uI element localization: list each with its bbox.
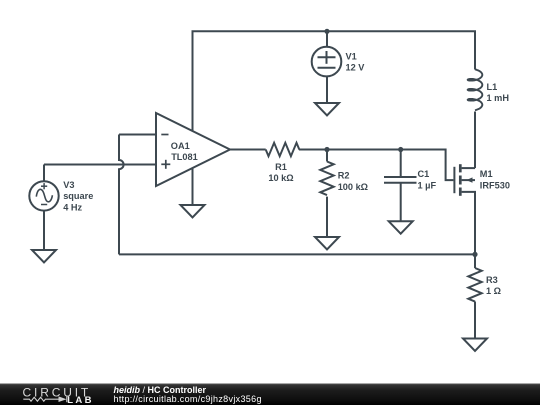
wire C1 to ground	[400, 183, 402, 222]
svg-text:100 kΩ: 100 kΩ	[338, 182, 368, 192]
wire V1 stem top	[326, 31, 328, 47]
label M1	[480, 169, 510, 191]
label L1	[487, 82, 510, 103]
svg-text:M1: M1	[480, 169, 493, 179]
node C1 junction	[398, 147, 403, 152]
ground under V1	[315, 103, 339, 115]
label V1	[346, 52, 366, 73]
svg-text:R3: R3	[486, 275, 498, 285]
wire R1 to node	[299, 149, 401, 151]
wire bottom rail	[119, 253, 475, 255]
svg-text:1 µF: 1 µF	[418, 181, 437, 191]
footer bar	[0, 384, 540, 405]
label V3	[63, 180, 93, 213]
wire V1 to ground	[326, 76, 328, 103]
op-amp plus pin mark	[161, 160, 170, 169]
wire op-amp output	[230, 149, 266, 151]
label OA1	[171, 141, 198, 162]
node junction top rail / V1	[324, 29, 329, 34]
label R2	[338, 171, 368, 192]
wire V3 top	[43, 165, 45, 182]
voltage source V1	[312, 47, 342, 77]
svg-text:http://circuitlab.com/c9jhz8vj: http://circuitlab.com/c9jhz8vjx356g	[114, 394, 262, 404]
wire R3 to ground	[474, 302, 476, 339]
svg-text:L1: L1	[487, 82, 498, 92]
svg-text:C1: C1	[418, 169, 430, 179]
ground under R3	[463, 339, 487, 351]
wire op-amp minus input	[119, 134, 156, 136]
capacitor C1	[384, 177, 417, 183]
logo resistor-diode doodle	[23, 396, 67, 402]
wire R2 to ground	[326, 197, 328, 237]
ground under R2	[315, 237, 339, 249]
inductor L1	[468, 69, 483, 110]
svg-text:LAB: LAB	[67, 395, 94, 405]
wire V3 to ground	[43, 211, 45, 250]
resistor R1	[266, 143, 300, 156]
label R1	[268, 162, 293, 183]
ground under C1	[389, 221, 413, 233]
svg-text:square: square	[63, 191, 93, 201]
ground under V3	[32, 250, 56, 262]
label R3	[486, 275, 501, 296]
wire M1 source down	[474, 192, 476, 255]
op-amp OA1	[156, 113, 230, 186]
wire R2 top	[326, 150, 328, 162]
node R2 junction	[324, 147, 329, 152]
wire C1 top	[400, 150, 402, 178]
wire gate of M1	[401, 150, 454, 181]
resistor R3	[468, 268, 481, 302]
node R3 junction	[472, 252, 477, 257]
wire op-amp V- to ground	[192, 168, 194, 205]
svg-text:1 mH: 1 mH	[487, 93, 510, 103]
svg-text:10 kΩ: 10 kΩ	[268, 173, 293, 183]
wire top rail	[193, 31, 476, 131]
svg-text:V1: V1	[346, 52, 357, 62]
svg-text:R1: R1	[275, 162, 287, 172]
ground under op-amp	[181, 205, 205, 217]
wire feedback vertical with hop	[119, 135, 124, 255]
svg-text:V3: V3	[63, 180, 74, 190]
resistor R2	[320, 162, 333, 196]
svg-text:12 V: 12 V	[346, 63, 366, 73]
svg-text:4 Hz: 4 Hz	[63, 202, 82, 212]
label C1	[418, 169, 437, 190]
svg-text:OA1: OA1	[171, 141, 190, 151]
op-amp minus pin mark	[161, 134, 168, 136]
wire op-amp plus input	[44, 164, 156, 166]
voltage source V3	[29, 181, 58, 210]
svg-text:1 Ω: 1 Ω	[486, 286, 501, 296]
svg-text:TL081: TL081	[171, 152, 198, 162]
svg-text:IRF530: IRF530	[480, 181, 510, 191]
transistor M1	[454, 164, 475, 196]
wire M1 drain to L1	[474, 112, 476, 169]
wire R3 top	[474, 254, 476, 268]
svg-text:R2: R2	[338, 171, 350, 181]
